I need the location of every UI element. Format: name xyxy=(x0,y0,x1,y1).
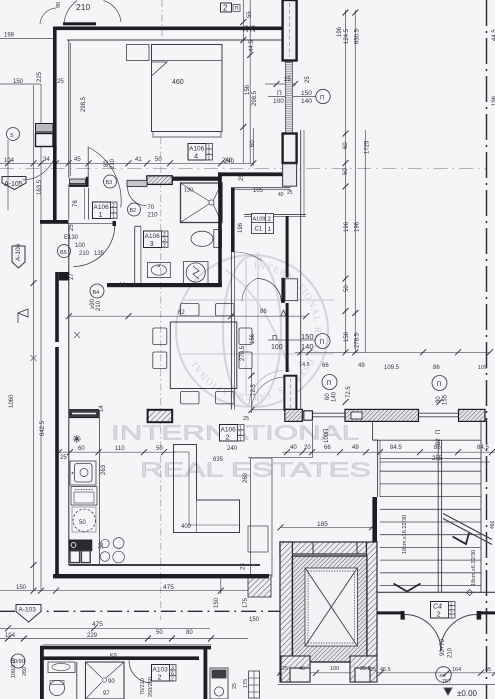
svg-text:66: 66 xyxy=(322,363,329,369)
svg-text:196: 196 xyxy=(337,26,343,37)
svg-text:45: 45 xyxy=(74,157,81,163)
svg-text:C1: C1 xyxy=(255,227,263,233)
svg-text:757: 757 xyxy=(442,679,451,685)
svg-text:198: 198 xyxy=(4,33,15,39)
svg-text:100: 100 xyxy=(271,344,283,351)
svg-text:100: 100 xyxy=(324,432,330,443)
svg-text:REAL ESTATES: REAL ESTATES xyxy=(140,459,371,482)
svg-text:110: 110 xyxy=(115,446,125,452)
svg-text:210: 210 xyxy=(79,251,90,257)
svg-text:25: 25 xyxy=(282,666,288,672)
svg-text:1060: 1060 xyxy=(9,394,15,408)
svg-text:50: 50 xyxy=(344,285,350,292)
svg-text:104: 104 xyxy=(4,158,15,164)
svg-text:60: 60 xyxy=(78,446,85,452)
svg-text:140: 140 xyxy=(301,342,314,351)
svg-text:150: 150 xyxy=(13,79,24,85)
svg-text:86: 86 xyxy=(260,309,267,315)
svg-text:Π: Π xyxy=(436,430,442,434)
svg-text:240: 240 xyxy=(224,159,235,165)
svg-text:B4: B4 xyxy=(93,290,100,296)
svg-text:130: 130 xyxy=(184,188,193,194)
svg-text:196: 196 xyxy=(344,221,350,232)
svg-text:25: 25 xyxy=(287,190,293,196)
svg-text:90: 90 xyxy=(108,679,115,685)
svg-text:2: 2 xyxy=(158,673,162,682)
svg-text:80: 80 xyxy=(186,630,193,636)
svg-text:60: 60 xyxy=(325,393,331,400)
svg-text:2: 2 xyxy=(223,4,228,13)
svg-text:40: 40 xyxy=(290,445,297,451)
svg-text:92: 92 xyxy=(436,438,442,445)
svg-text:23: 23 xyxy=(241,563,247,570)
svg-text:50: 50 xyxy=(155,157,162,163)
svg-text:105: 105 xyxy=(253,188,264,194)
svg-text:Π: Π xyxy=(320,339,325,346)
svg-text:49: 49 xyxy=(358,363,365,369)
svg-text:278.5: 278.5 xyxy=(240,345,246,361)
svg-text:2: 2 xyxy=(437,610,441,619)
svg-text:150: 150 xyxy=(249,617,260,623)
svg-text:466: 466 xyxy=(490,520,495,529)
svg-text:100/210: 100/210 xyxy=(11,658,17,678)
svg-text:263: 263 xyxy=(101,464,107,475)
svg-text:229: 229 xyxy=(87,633,98,639)
svg-text:2: 2 xyxy=(226,433,230,442)
svg-text:278.5: 278.5 xyxy=(355,332,361,348)
svg-text:475: 475 xyxy=(92,621,103,628)
svg-text:156: 156 xyxy=(250,333,256,344)
svg-text:225: 225 xyxy=(37,71,43,82)
svg-text:164: 164 xyxy=(452,667,461,673)
svg-text:25: 25 xyxy=(284,77,291,83)
svg-text:475: 475 xyxy=(163,584,174,591)
svg-text:104: 104 xyxy=(5,633,16,639)
svg-text:25: 25 xyxy=(69,224,75,231)
svg-text:460: 460 xyxy=(172,79,184,86)
svg-text:185: 185 xyxy=(317,521,328,528)
svg-text:20: 20 xyxy=(304,445,311,451)
svg-text:44.5: 44.5 xyxy=(249,40,255,52)
svg-text:27: 27 xyxy=(69,273,75,280)
svg-text:210: 210 xyxy=(148,213,159,219)
svg-text:150: 150 xyxy=(301,332,314,341)
svg-text:70/210: 70/210 xyxy=(140,678,146,695)
svg-text:18cm.x6.22/30: 18cm.x6.22/30 xyxy=(471,550,477,586)
svg-text:45.5: 45.5 xyxy=(380,667,391,673)
svg-text:25: 25 xyxy=(305,76,311,83)
svg-text:A-105: A-105 xyxy=(4,181,23,188)
svg-text:298.5: 298.5 xyxy=(81,96,87,112)
svg-text:25: 25 xyxy=(232,683,238,689)
svg-text:25: 25 xyxy=(243,416,249,422)
svg-text:124.5: 124.5 xyxy=(344,28,350,44)
svg-text:Π: Π xyxy=(272,335,277,342)
svg-text:135: 135 xyxy=(94,251,105,257)
svg-text:80: 80 xyxy=(436,396,442,403)
svg-text:109.5: 109.5 xyxy=(384,365,400,371)
svg-text:140: 140 xyxy=(332,391,338,402)
svg-text:B3: B3 xyxy=(106,180,113,186)
svg-text:140: 140 xyxy=(301,98,312,105)
svg-text:62: 62 xyxy=(178,310,185,316)
svg-text:50: 50 xyxy=(343,168,349,175)
svg-text:100: 100 xyxy=(75,243,86,249)
svg-text:B2: B2 xyxy=(130,208,137,214)
svg-text:642.5: 642.5 xyxy=(40,420,46,436)
svg-text:86: 86 xyxy=(433,365,440,371)
svg-text:25: 25 xyxy=(251,25,257,32)
svg-text:25: 25 xyxy=(244,25,250,32)
svg-text:60: 60 xyxy=(250,140,256,147)
svg-text:A109: A109 xyxy=(253,217,266,223)
svg-text:90: 90 xyxy=(56,2,62,8)
svg-text:150: 150 xyxy=(301,90,312,97)
svg-text:78: 78 xyxy=(73,200,79,207)
svg-text:70: 70 xyxy=(148,205,155,211)
svg-text:A-103: A-103 xyxy=(19,607,37,614)
svg-text:210: 210 xyxy=(448,647,454,658)
svg-text:97: 97 xyxy=(103,691,110,697)
svg-text:1: 1 xyxy=(208,156,211,162)
svg-text:72.5: 72.5 xyxy=(346,386,352,398)
svg-text:156: 156 xyxy=(344,331,350,342)
svg-text:A-106: A-106 xyxy=(15,243,22,261)
svg-text:Π: Π xyxy=(324,429,330,433)
svg-text:1725: 1725 xyxy=(365,140,371,154)
svg-text:2: 2 xyxy=(171,677,174,683)
svg-text:635: 635 xyxy=(213,457,224,463)
svg-text:50: 50 xyxy=(99,542,105,549)
svg-text:55: 55 xyxy=(247,11,253,18)
svg-text:60: 60 xyxy=(343,142,349,149)
svg-text:14.5: 14.5 xyxy=(299,362,310,368)
svg-text:K9: K9 xyxy=(110,653,117,659)
svg-text:155: 155 xyxy=(443,394,449,405)
svg-text:163.5: 163.5 xyxy=(37,179,43,195)
svg-text:Π: Π xyxy=(277,90,282,97)
svg-text:4: 4 xyxy=(194,152,198,161)
svg-text:1: 1 xyxy=(99,210,103,219)
svg-text:45: 45 xyxy=(299,666,305,672)
svg-text:49: 49 xyxy=(352,445,359,451)
svg-text:100: 100 xyxy=(273,98,284,105)
svg-text:210: 210 xyxy=(96,300,102,311)
svg-text:196: 196 xyxy=(238,222,244,233)
svg-text:2: 2 xyxy=(163,243,166,249)
svg-text:S: S xyxy=(10,133,14,139)
svg-text:109: 109 xyxy=(478,365,487,371)
svg-text:210: 210 xyxy=(76,2,90,12)
svg-text:25: 25 xyxy=(57,79,64,85)
svg-text:1: 1 xyxy=(112,214,115,220)
svg-text:Π: Π xyxy=(235,6,239,12)
svg-text:40: 40 xyxy=(278,192,284,198)
svg-text:50: 50 xyxy=(156,630,163,636)
svg-text:3: 3 xyxy=(150,239,154,248)
svg-text:Π: Π xyxy=(320,96,324,102)
svg-text:175: 175 xyxy=(243,679,249,688)
svg-text:86: 86 xyxy=(434,445,441,451)
svg-text:50: 50 xyxy=(79,520,86,526)
svg-text:650.5: 650.5 xyxy=(355,28,361,44)
svg-text:1: 1 xyxy=(239,437,242,443)
svg-text:100: 100 xyxy=(330,666,339,672)
svg-text:298.5: 298.5 xyxy=(252,90,258,106)
svg-text:210: 210 xyxy=(110,158,116,169)
svg-text:45: 45 xyxy=(485,667,491,673)
svg-text:B5: B5 xyxy=(60,250,67,256)
svg-text:84.5: 84.5 xyxy=(390,445,402,451)
svg-text:240: 240 xyxy=(227,446,238,452)
svg-text:E130: E130 xyxy=(64,235,79,241)
svg-text:150: 150 xyxy=(16,585,27,591)
svg-text:150: 150 xyxy=(214,597,220,608)
svg-text:29: 29 xyxy=(119,283,126,289)
svg-text:255: 255 xyxy=(432,456,443,462)
svg-text:Π: Π xyxy=(327,380,332,387)
svg-text:25: 25 xyxy=(370,667,376,673)
svg-text:175: 175 xyxy=(243,597,249,608)
svg-text:25: 25 xyxy=(239,174,245,181)
svg-text:±0.00: ±0.00 xyxy=(457,689,478,698)
svg-text:72.5: 72.5 xyxy=(251,384,257,396)
svg-text:84.5: 84.5 xyxy=(477,445,489,451)
svg-text:260: 260 xyxy=(243,472,249,483)
svg-text:260: 260 xyxy=(22,667,28,676)
svg-text:400: 400 xyxy=(181,524,192,530)
svg-text:Π: Π xyxy=(437,381,442,388)
svg-text:50: 50 xyxy=(156,446,163,452)
svg-text:196: 196 xyxy=(355,221,361,232)
svg-text:156: 156 xyxy=(245,84,251,95)
svg-text:90+70: 90+70 xyxy=(440,638,446,656)
svg-text:41: 41 xyxy=(135,157,142,163)
svg-text:66: 66 xyxy=(324,445,331,451)
svg-text:14: 14 xyxy=(99,405,105,412)
svg-text:34: 34 xyxy=(43,157,50,163)
svg-text:25: 25 xyxy=(60,455,67,461)
svg-text:18cm.x16.22/30: 18cm.x16.22/30 xyxy=(402,515,408,554)
